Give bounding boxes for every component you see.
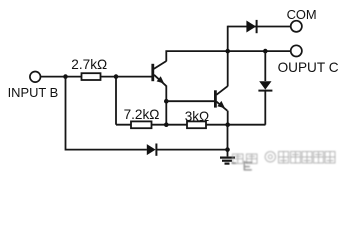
svg-text:7.2kΩ: 7.2kΩ bbox=[124, 107, 160, 122]
wire input row: INPUT B to Q1 base bbox=[41, 76, 152, 78]
terminal INPUT B bbox=[30, 72, 41, 83]
wire Q2 base bbox=[166, 100, 214, 102]
resistor R1 2.7kΩ bbox=[82, 73, 101, 80]
node diode branch on top rail bbox=[263, 49, 268, 54]
wire Q2 emitter down to middle row bbox=[227, 111, 229, 125]
diode D2 on bottom wire bbox=[147, 144, 228, 156]
transistor Q1 bbox=[153, 61, 167, 86]
wire left vertical drop bbox=[66, 77, 147, 150]
ground bbox=[220, 158, 235, 164]
resistor R3 3kΩ bbox=[187, 121, 206, 128]
terminal COM bbox=[291, 21, 302, 32]
node junction middle row bbox=[164, 122, 169, 127]
wire COM row bbox=[228, 26, 291, 28]
svg-text:COM: COM bbox=[287, 7, 317, 22]
diode D3 vertical branch bbox=[258, 51, 272, 125]
node Q1 emitter / Q2 base junction bbox=[164, 99, 169, 104]
wire middle row (7.2k / 3k row) bbox=[116, 124, 266, 126]
watermark dark fragment bbox=[232, 161, 253, 171]
svg-text:3kΩ: 3kΩ bbox=[185, 109, 210, 124]
svg-text:INPUT B: INPUT B bbox=[8, 85, 59, 100]
wire Q2 emitter row to ground bbox=[227, 125, 229, 157]
resistor R2 7.2kΩ bbox=[131, 121, 152, 128]
wire Q2 collector up to COM corner bbox=[227, 26, 229, 87]
wire Q1 emitter vertical bbox=[165, 86, 167, 125]
svg-text:OUPUT C: OUPUT C bbox=[278, 60, 339, 75]
node junction at left drop bbox=[63, 74, 68, 79]
node top rail crossing bbox=[225, 49, 230, 54]
wire vertical from node to 7.2k row bbox=[115, 77, 117, 125]
node Q2 emitter junction bbox=[225, 122, 230, 127]
svg-text:2.7kΩ: 2.7kΩ bbox=[71, 57, 107, 72]
wire Q1 collector to top rail bbox=[166, 51, 290, 61]
node junction under resistor R1 right bbox=[114, 74, 119, 79]
transistor Q2 bbox=[215, 86, 227, 111]
diode D1 on COM row bbox=[246, 20, 256, 33]
node ground junction bbox=[225, 147, 230, 152]
terminal OUPUT C bbox=[291, 45, 302, 56]
